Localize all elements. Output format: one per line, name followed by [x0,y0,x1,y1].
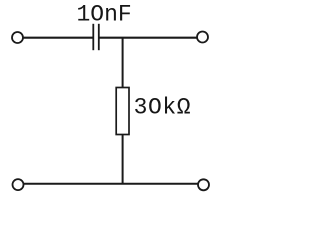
wire junction down to resistor [122,38,124,88]
terminal bottom-left [13,179,24,190]
svg-text:1OnF: 1OnF [77,1,132,27]
svg-text:3OkΩ: 3OkΩ [134,95,192,121]
capacitor left plate [92,24,94,50]
terminal top-right [197,32,208,43]
resistor body [116,88,129,135]
terminal bottom-right [198,179,209,190]
wire resistor to bottom rail [122,135,124,184]
wire bottom rail [24,183,198,185]
capacitor right plate [98,24,100,50]
wire top-left to capacitor [24,37,93,39]
terminal top-left [12,32,23,43]
wire capacitor to top-right terminal [100,37,197,39]
